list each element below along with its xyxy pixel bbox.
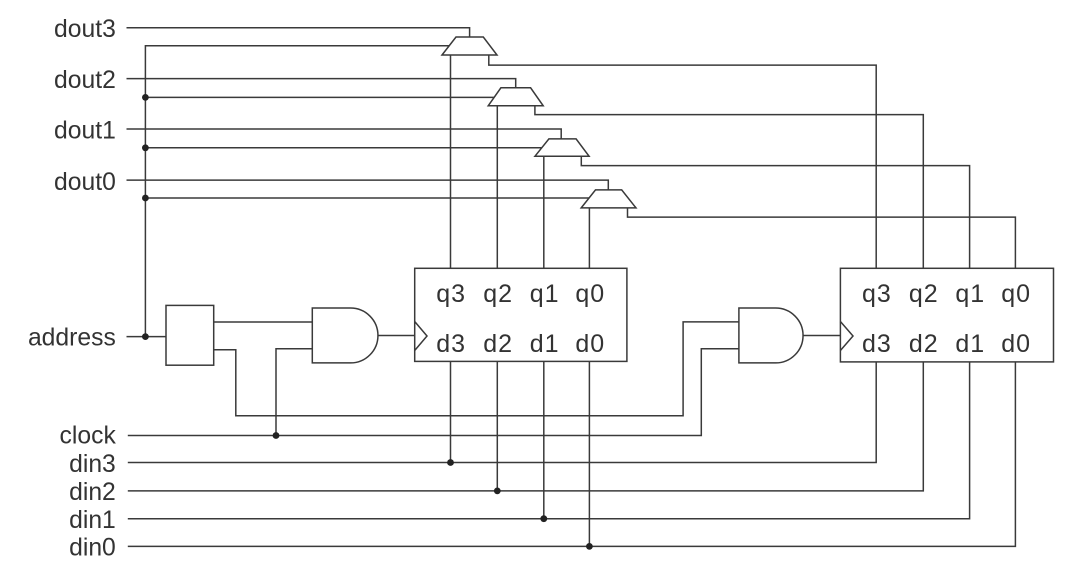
and-gate U2 <box>312 308 378 363</box>
wire din2 to register R2 d2 <box>128 362 924 491</box>
wire U3 output to register R2 clock <box>803 335 840 337</box>
svg-text:q0: q0 <box>575 280 605 308</box>
register R2 <box>840 268 1053 362</box>
wire register R1 d1 <box>543 361 545 518</box>
wire din1 to register R2 d1 <box>128 362 970 519</box>
svg-text:address: address <box>28 325 116 352</box>
svg-text:d1: d1 <box>955 330 985 358</box>
svg-text:din1: din1 <box>69 507 116 534</box>
junction din2-R1d2 <box>494 488 501 495</box>
wire select to mux M2 <box>145 96 494 98</box>
junction bus-select4 <box>142 195 149 202</box>
wire clock line to AND U3 <box>128 349 739 436</box>
wire register R1 q2 to mux M2 input0 <box>496 106 498 268</box>
svg-text:clock: clock <box>60 423 117 450</box>
wire register R1 q1 to mux M3 input0 <box>543 156 545 268</box>
junction bus-address <box>142 333 149 340</box>
wire U1 output A to AND U2 <box>214 321 313 323</box>
wire register R1 d0 <box>588 361 590 546</box>
mux M4 <box>581 190 636 208</box>
wire register R2 q3 to mux M1 input1 <box>489 55 876 268</box>
wire dout3 to mux M1 output <box>127 28 470 37</box>
svg-text:q3: q3 <box>436 280 466 308</box>
junction clock-U2 <box>273 432 280 439</box>
svg-text:din0: din0 <box>69 535 116 562</box>
svg-text:d3: d3 <box>436 330 466 358</box>
wire dout2 to mux M2 output <box>127 79 516 88</box>
svg-text:d2: d2 <box>483 330 513 358</box>
wire register R2 q1 to mux M3 input1 <box>581 156 969 268</box>
svg-text:q2: q2 <box>909 280 939 308</box>
svg-text:d3: d3 <box>862 330 892 358</box>
wire select to mux M3 <box>145 147 541 149</box>
wire din3 to register R2 d3 <box>128 362 876 463</box>
junction bus-select3 <box>142 144 149 151</box>
svg-text:din2: din2 <box>69 479 116 506</box>
wire register R1 d2 <box>496 361 498 491</box>
wire dout1 to mux M3 output <box>127 129 562 139</box>
register R1 <box>415 268 627 361</box>
wire dout0 to mux M4 output <box>127 180 609 190</box>
junction din3-R1d3 <box>447 459 454 466</box>
svg-text:dout3: dout3 <box>54 16 116 43</box>
svg-text:dout2: dout2 <box>54 67 116 94</box>
inverter U1 <box>166 305 214 365</box>
wire register R2 q0 to mux M4 input1 <box>628 208 1016 268</box>
junction din0-R1d0 <box>586 543 593 550</box>
wire register R1 d3 <box>450 361 452 462</box>
svg-text:d0: d0 <box>575 330 605 358</box>
mux M3 <box>535 139 589 156</box>
svg-text:dout0: dout0 <box>54 169 116 196</box>
wire U2 output to register R1 clock <box>378 335 415 337</box>
svg-text:d2: d2 <box>909 330 939 358</box>
svg-text:dout1: dout1 <box>54 117 116 144</box>
svg-text:q1: q1 <box>955 280 985 308</box>
svg-text:q1: q1 <box>530 280 560 308</box>
wire register R1 q0 to mux M4 input0 <box>588 208 590 268</box>
svg-text:din3: din3 <box>69 451 116 478</box>
svg-text:q3: q3 <box>862 280 892 308</box>
wire U1 output B to AND U3 <box>214 322 739 416</box>
wire address select bus to mux M1 select <box>145 46 449 337</box>
wire address input <box>127 336 167 338</box>
wire register R2 q2 to mux M2 input1 <box>535 106 923 268</box>
wire select to mux M4 <box>145 197 588 199</box>
junction din1-R1d1 <box>540 515 547 522</box>
and-gate U3 <box>739 308 803 363</box>
svg-text:q2: q2 <box>483 280 513 308</box>
svg-text:d1: d1 <box>530 330 560 358</box>
wire register R1 q3 to mux M1 input0 <box>450 55 452 268</box>
svg-text:d0: d0 <box>1001 330 1031 358</box>
wire clock tap to AND U2 <box>276 349 312 436</box>
mux M1 <box>442 37 497 55</box>
svg-text:q0: q0 <box>1001 280 1031 308</box>
mux M2 <box>488 88 543 106</box>
wire din0 to register R2 d0 <box>128 362 1016 547</box>
junction bus-select2 <box>142 94 149 101</box>
